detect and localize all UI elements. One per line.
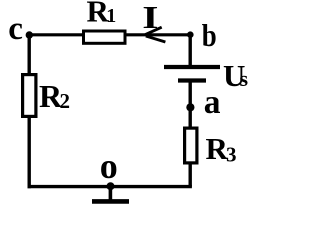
wire right upper (b to battery top plate) xyxy=(188,33,191,67)
node b junction dot xyxy=(187,31,194,38)
wire bottom (bottom-left to bottom-right corner) xyxy=(28,185,192,188)
svg-text:o: o xyxy=(100,146,118,186)
wire right lower (battery bottom plate through a and R3 to bottom-right corner) xyxy=(188,81,191,187)
node a junction dot xyxy=(186,103,194,111)
wire top (c to b) xyxy=(29,33,190,36)
resistor R2 xyxy=(23,75,36,117)
svg-text:3: 3 xyxy=(226,143,237,167)
svg-text:1: 1 xyxy=(106,5,116,27)
ground bar xyxy=(92,199,129,204)
resistor R3 xyxy=(185,128,197,163)
svg-text:c: c xyxy=(8,11,23,47)
svg-text:b: b xyxy=(202,19,217,54)
battery U_s top plate xyxy=(164,65,220,69)
svg-text:2: 2 xyxy=(60,89,71,113)
node c junction dot xyxy=(26,31,33,38)
ground stub at o xyxy=(109,187,113,200)
svg-text:I: I xyxy=(142,0,158,35)
svg-text:a: a xyxy=(204,84,221,121)
node o junction dot xyxy=(107,182,115,190)
wire left (c to bottom-left corner) xyxy=(28,33,31,188)
resistor R1 xyxy=(84,31,126,43)
battery U_s bottom plate xyxy=(178,78,206,82)
current arrow I (pointing left on top wire) xyxy=(145,27,165,42)
svg-text:s: s xyxy=(240,66,249,91)
